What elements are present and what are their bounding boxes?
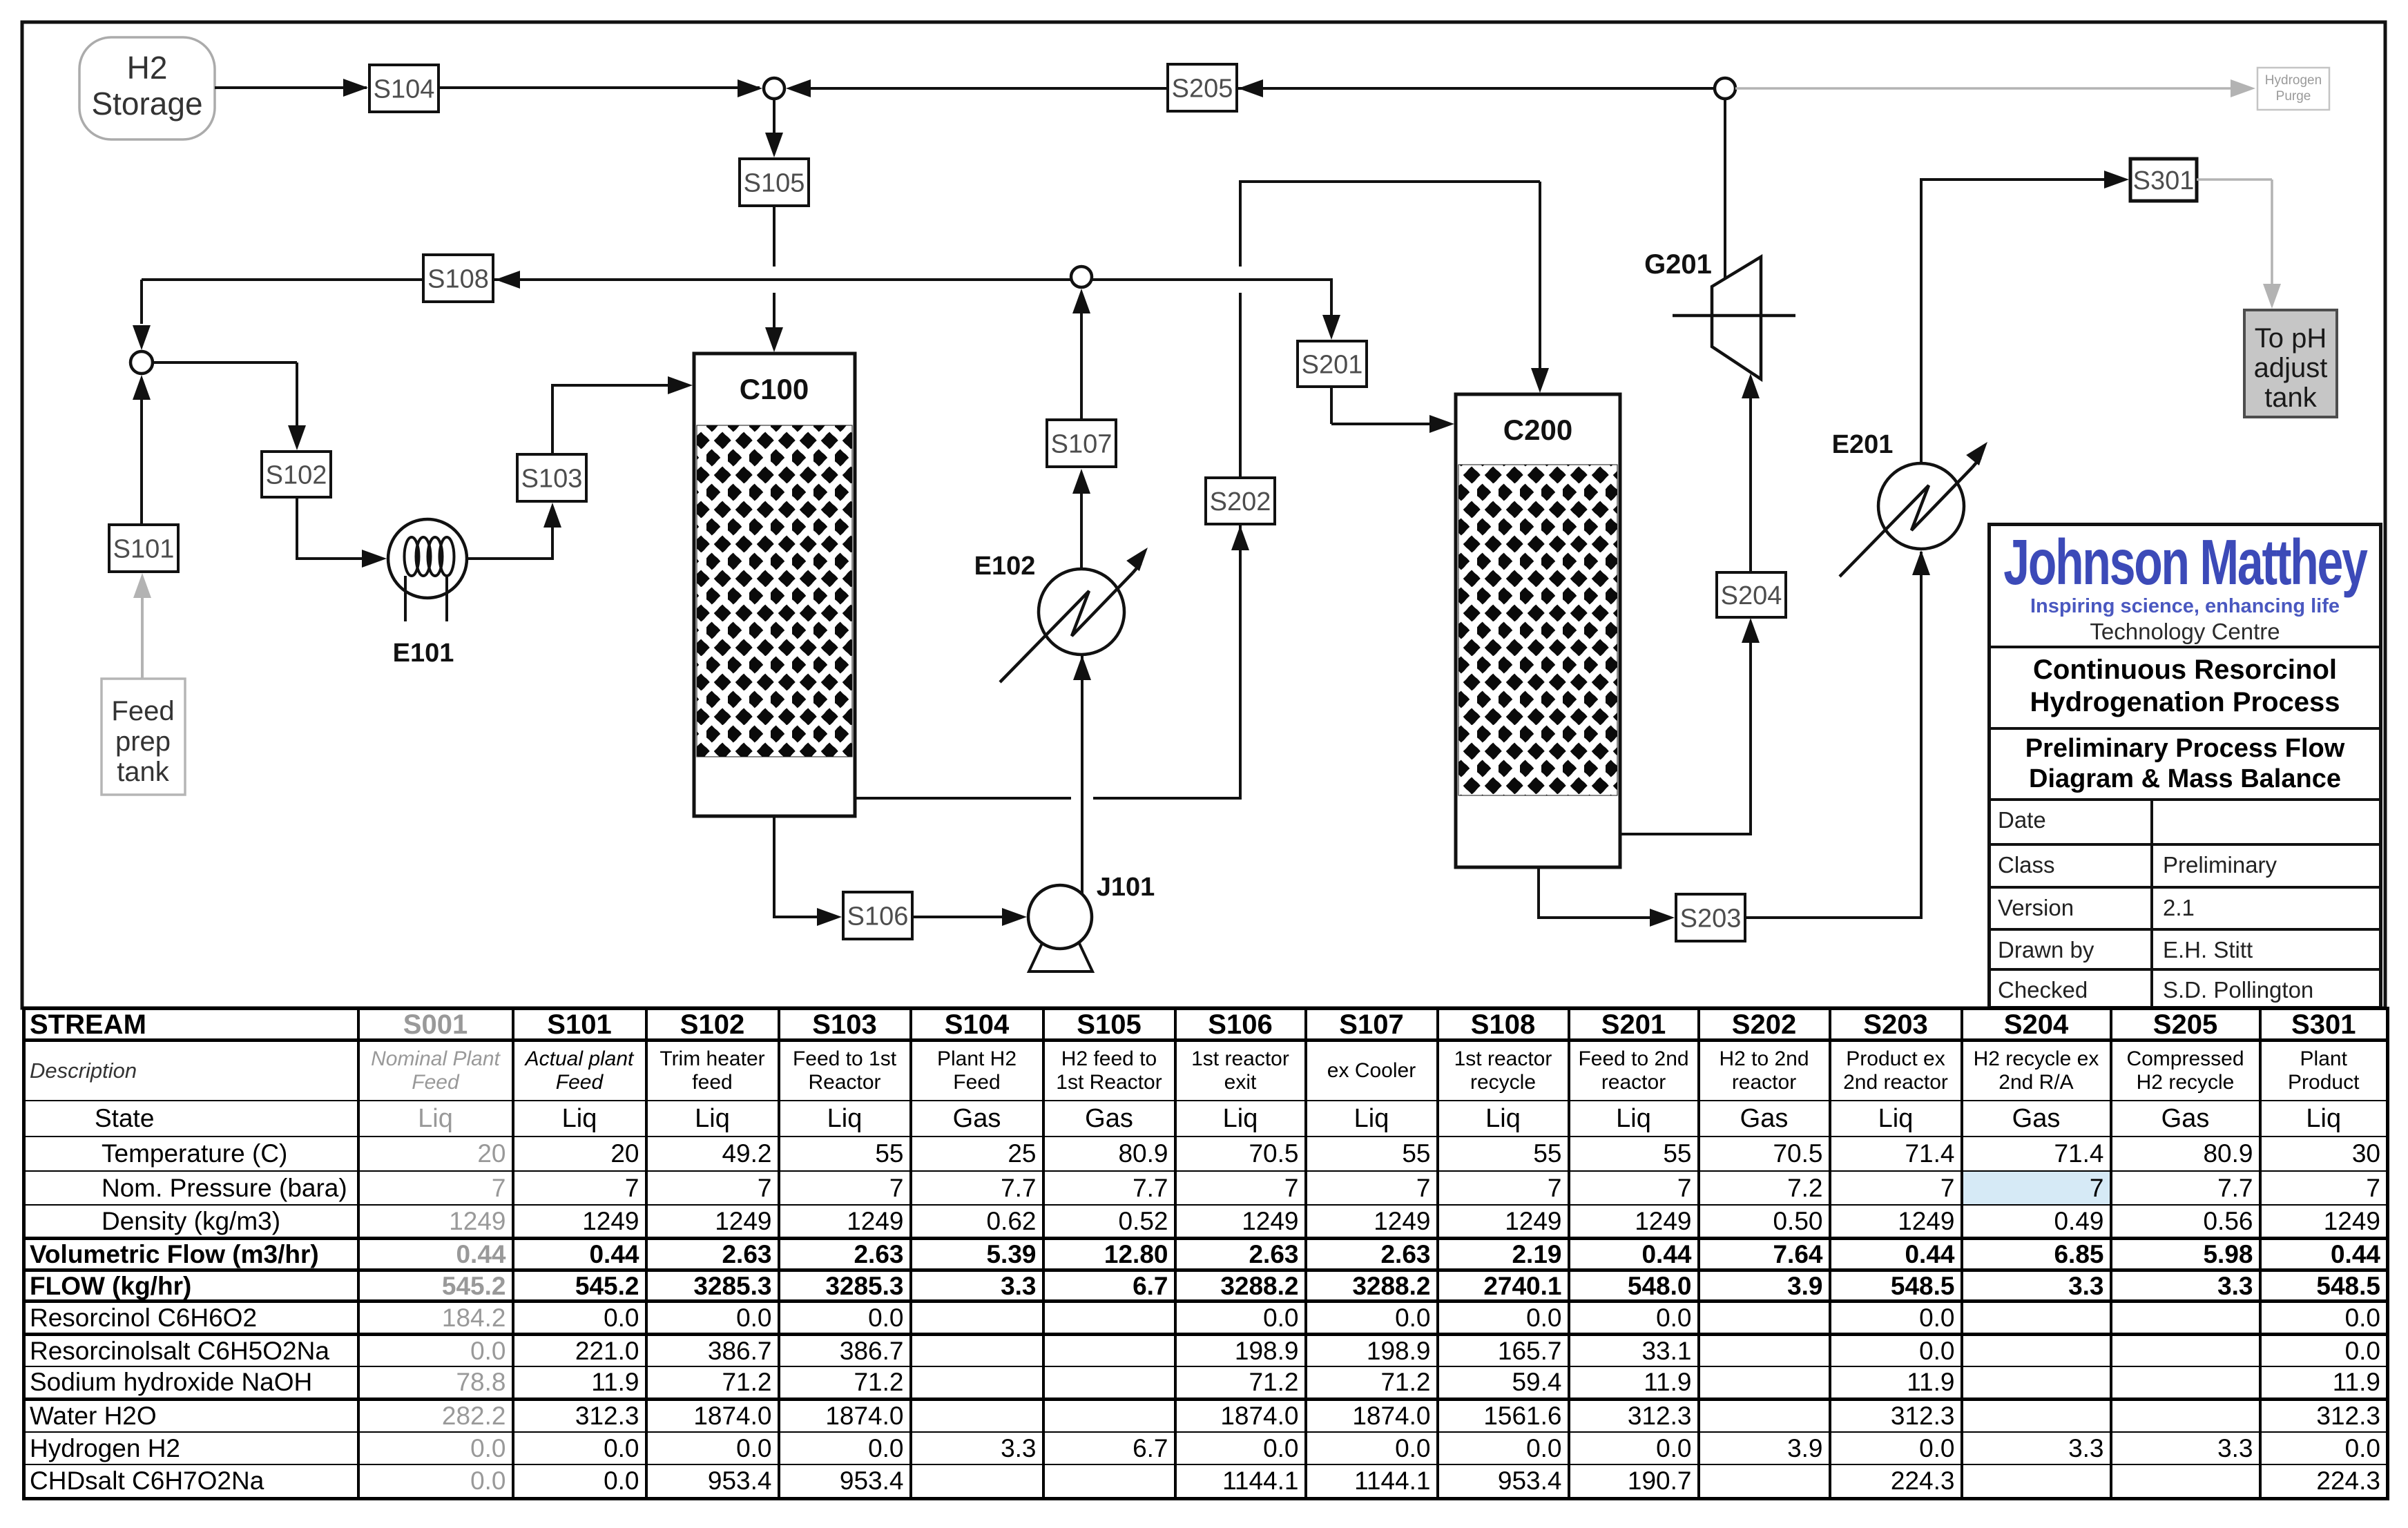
svg-text:tank: tank <box>2264 383 2318 413</box>
wire S101 to mix node <box>140 400 143 525</box>
wire S203 to E201 <box>1746 916 1921 919</box>
wire mix node to S102 <box>153 361 297 364</box>
row Drawn by <box>1991 928 2379 968</box>
To pH adjust tank block <box>2244 310 2337 417</box>
subtitle: Preliminary Process Flow Diagram & Mass Balance <box>1991 727 2379 798</box>
gray arrow into pH adjust tank <box>2263 284 2281 309</box>
arrow into S301 <box>2104 171 2129 188</box>
wire S204 to G201 <box>1749 396 1752 572</box>
svg-text:E201: E201 <box>1832 430 1894 459</box>
wire G201 outlet to purge junction <box>1724 99 1726 279</box>
arrow into E201 bottom <box>1912 550 1930 575</box>
G201 shaft line <box>1673 314 1795 318</box>
arrow into S203 <box>1650 909 1675 927</box>
wire S103 to C100 <box>551 385 554 454</box>
title: Continuous Resorcinol Hydrogenation Process <box>1991 646 2379 727</box>
E101 leg <box>404 576 407 621</box>
wire S202 riser upper <box>1239 180 1242 267</box>
wire S202 top run to C200 <box>1239 180 1540 183</box>
wire split to S201 <box>1330 278 1333 316</box>
cooler E102 <box>1039 569 1124 655</box>
stream label S107 <box>1047 420 1116 467</box>
svg-text:prep: prep <box>115 726 171 757</box>
stream label S203 <box>1676 894 1745 941</box>
row Version <box>1991 886 2379 928</box>
svg-text:S102: S102 <box>266 461 327 490</box>
stream label S204 <box>1717 572 1786 617</box>
stream label S108 <box>423 255 493 302</box>
svg-text:S106: S106 <box>847 902 909 931</box>
wire S105 down (above S108 line crossing) <box>773 206 776 267</box>
arrow into S103 <box>543 503 561 528</box>
svg-text:tank: tank <box>117 757 170 787</box>
arrow into S204 <box>1742 618 1760 643</box>
Hydrogen Purge block <box>2257 68 2329 110</box>
arrow into S104 <box>343 79 368 97</box>
reactor C100 <box>694 354 855 816</box>
gray arrow into Hydrogen Purge <box>2231 79 2255 97</box>
arrow into S102 <box>288 425 306 450</box>
stream label S102 <box>262 452 331 497</box>
arrow into feed mix node from S108 <box>133 325 151 350</box>
arrow into E101 <box>362 550 387 568</box>
gray wire to Hydrogen Purge <box>1735 87 2246 90</box>
gray wire S301 to pH adjust tank <box>2197 178 2272 181</box>
junction node: H2 mix point <box>764 78 784 99</box>
wire S106 to J101 <box>911 916 1018 918</box>
Feed prep tank block <box>102 679 185 795</box>
arrow into C100 left <box>668 376 693 394</box>
svg-text:Hydrogen: Hydrogen <box>2265 73 2322 88</box>
wire E201 to S301 <box>1920 180 1923 463</box>
E201 utility arrow <box>1966 442 1987 465</box>
arrow into C200 left <box>1429 415 1454 433</box>
svg-text:H2: H2 <box>127 50 168 86</box>
wire S107 to split junction <box>1080 312 1083 420</box>
pump J101 <box>1029 939 1092 971</box>
wire S108 recycle header <box>142 278 1331 281</box>
wire E101 to S103 <box>467 557 552 560</box>
junction node: feed mix point <box>131 351 153 374</box>
arrow into pump J101 <box>1002 908 1027 926</box>
gray arrow into S101 <box>133 573 151 598</box>
arrow into C200 top <box>1531 368 1549 393</box>
reactor C200 <box>1456 394 1620 867</box>
arrow into S108 box <box>495 271 520 289</box>
junction node: purge split <box>1715 78 1735 99</box>
E102 utility arrow <box>1126 548 1148 571</box>
row Checked <box>1991 968 2379 1009</box>
wire C100 side outlet (left of J101 line) <box>855 797 1071 800</box>
svg-text:S107: S107 <box>1051 429 1113 458</box>
stream label S201 <box>1298 341 1367 387</box>
wire C200 bottom outlet <box>1537 867 1540 918</box>
svg-text:S203: S203 <box>1680 904 1742 933</box>
svg-text:C100: C100 <box>740 373 809 405</box>
stream label S106 <box>843 892 912 939</box>
svg-text:S105: S105 <box>744 168 805 197</box>
stream label S104 <box>369 65 439 112</box>
wire C100 bottom outlet <box>773 816 776 917</box>
wire E102 to S107 <box>1080 492 1083 569</box>
arrow into junction from S205 side <box>786 79 811 97</box>
arrow into junction from S104 <box>738 79 762 97</box>
svg-text:S101: S101 <box>113 534 175 563</box>
wire S205 recycle line <box>811 87 1715 90</box>
svg-text:adjust: adjust <box>2254 353 2328 383</box>
arrow into S105 <box>765 133 783 157</box>
svg-text:G201: G201 <box>1644 249 1712 280</box>
row Class <box>1991 843 2379 886</box>
svg-text:S205: S205 <box>1172 74 1233 103</box>
wire J101 discharge to E102 <box>1081 656 1083 894</box>
wire S202 riser lower <box>1239 293 1242 800</box>
wire S201 to C200 <box>1330 387 1333 424</box>
svg-text:S104: S104 <box>374 75 435 104</box>
svg-text:Storage: Storage <box>91 86 202 122</box>
svg-text:S301: S301 <box>2133 166 2195 195</box>
svg-text:E101: E101 <box>393 639 454 668</box>
drawing border frame <box>22 22 2385 1008</box>
svg-text:C200: C200 <box>1503 414 1572 446</box>
logo tagline <box>2030 595 2340 618</box>
svg-text:To pH: To pH <box>2255 323 2327 354</box>
svg-text:S202: S202 <box>1210 487 1271 516</box>
arrow into S106 <box>817 908 842 926</box>
arrow into split junction <box>1072 289 1090 313</box>
svg-text:S103: S103 <box>521 464 583 493</box>
gray wire Feed prep tank to S101 <box>141 597 144 679</box>
svg-text:J101: J101 <box>1097 873 1155 902</box>
junction node: reactor1 outlet split <box>1071 267 1092 287</box>
H2 Storage source block <box>79 37 215 139</box>
stream label S301 <box>2130 159 2197 201</box>
stream label S103 <box>517 454 586 501</box>
arrow into G201 inlet <box>1742 374 1760 398</box>
Technology Centre <box>2090 619 2280 645</box>
stream label S101 <box>109 525 178 572</box>
wire S108 down to feed mix point <box>140 280 143 324</box>
wire S105 down (below crossing) <box>773 293 776 329</box>
arrow into feed mix node from S101 <box>133 375 151 400</box>
stream label S202 <box>1206 478 1275 524</box>
arrow into S201 <box>1322 315 1340 340</box>
arrow into S205 box <box>1238 79 1263 97</box>
mass balance table <box>22 1007 2389 1500</box>
Johnson Matthey logo <box>2003 530 2366 594</box>
stream label S105 <box>740 159 809 206</box>
svg-text:S108: S108 <box>427 264 489 293</box>
stream label S205 <box>1168 64 1237 111</box>
wire S104 to mix junction <box>439 86 760 89</box>
wire H2 Storage to S104 <box>215 86 367 89</box>
svg-text:Purge: Purge <box>2276 89 2311 104</box>
wire junction to S105 <box>773 99 776 134</box>
title block: Johnson Matthey <box>1987 523 2382 1009</box>
row Date <box>1991 798 2379 843</box>
svg-text:Feed: Feed <box>111 696 174 726</box>
compressor G201 <box>1712 257 1761 379</box>
svg-text:E102: E102 <box>974 552 1036 581</box>
E101 leg <box>445 576 448 621</box>
wire C100 side outlet (right of J101 line) <box>1093 797 1239 800</box>
svg-text:S201: S201 <box>1302 350 1363 379</box>
arrow into C100 top <box>765 327 783 352</box>
wire S102 to E101 <box>296 497 298 559</box>
svg-text:S204: S204 <box>1721 581 1782 610</box>
arrow into S107 <box>1072 469 1090 494</box>
arrow into E102 bottom <box>1073 655 1091 680</box>
wire C200 gas outlet <box>1620 833 1751 835</box>
arrow into S202 <box>1231 525 1249 550</box>
cooler E201 <box>1878 463 1964 549</box>
heater E101 <box>388 519 467 598</box>
